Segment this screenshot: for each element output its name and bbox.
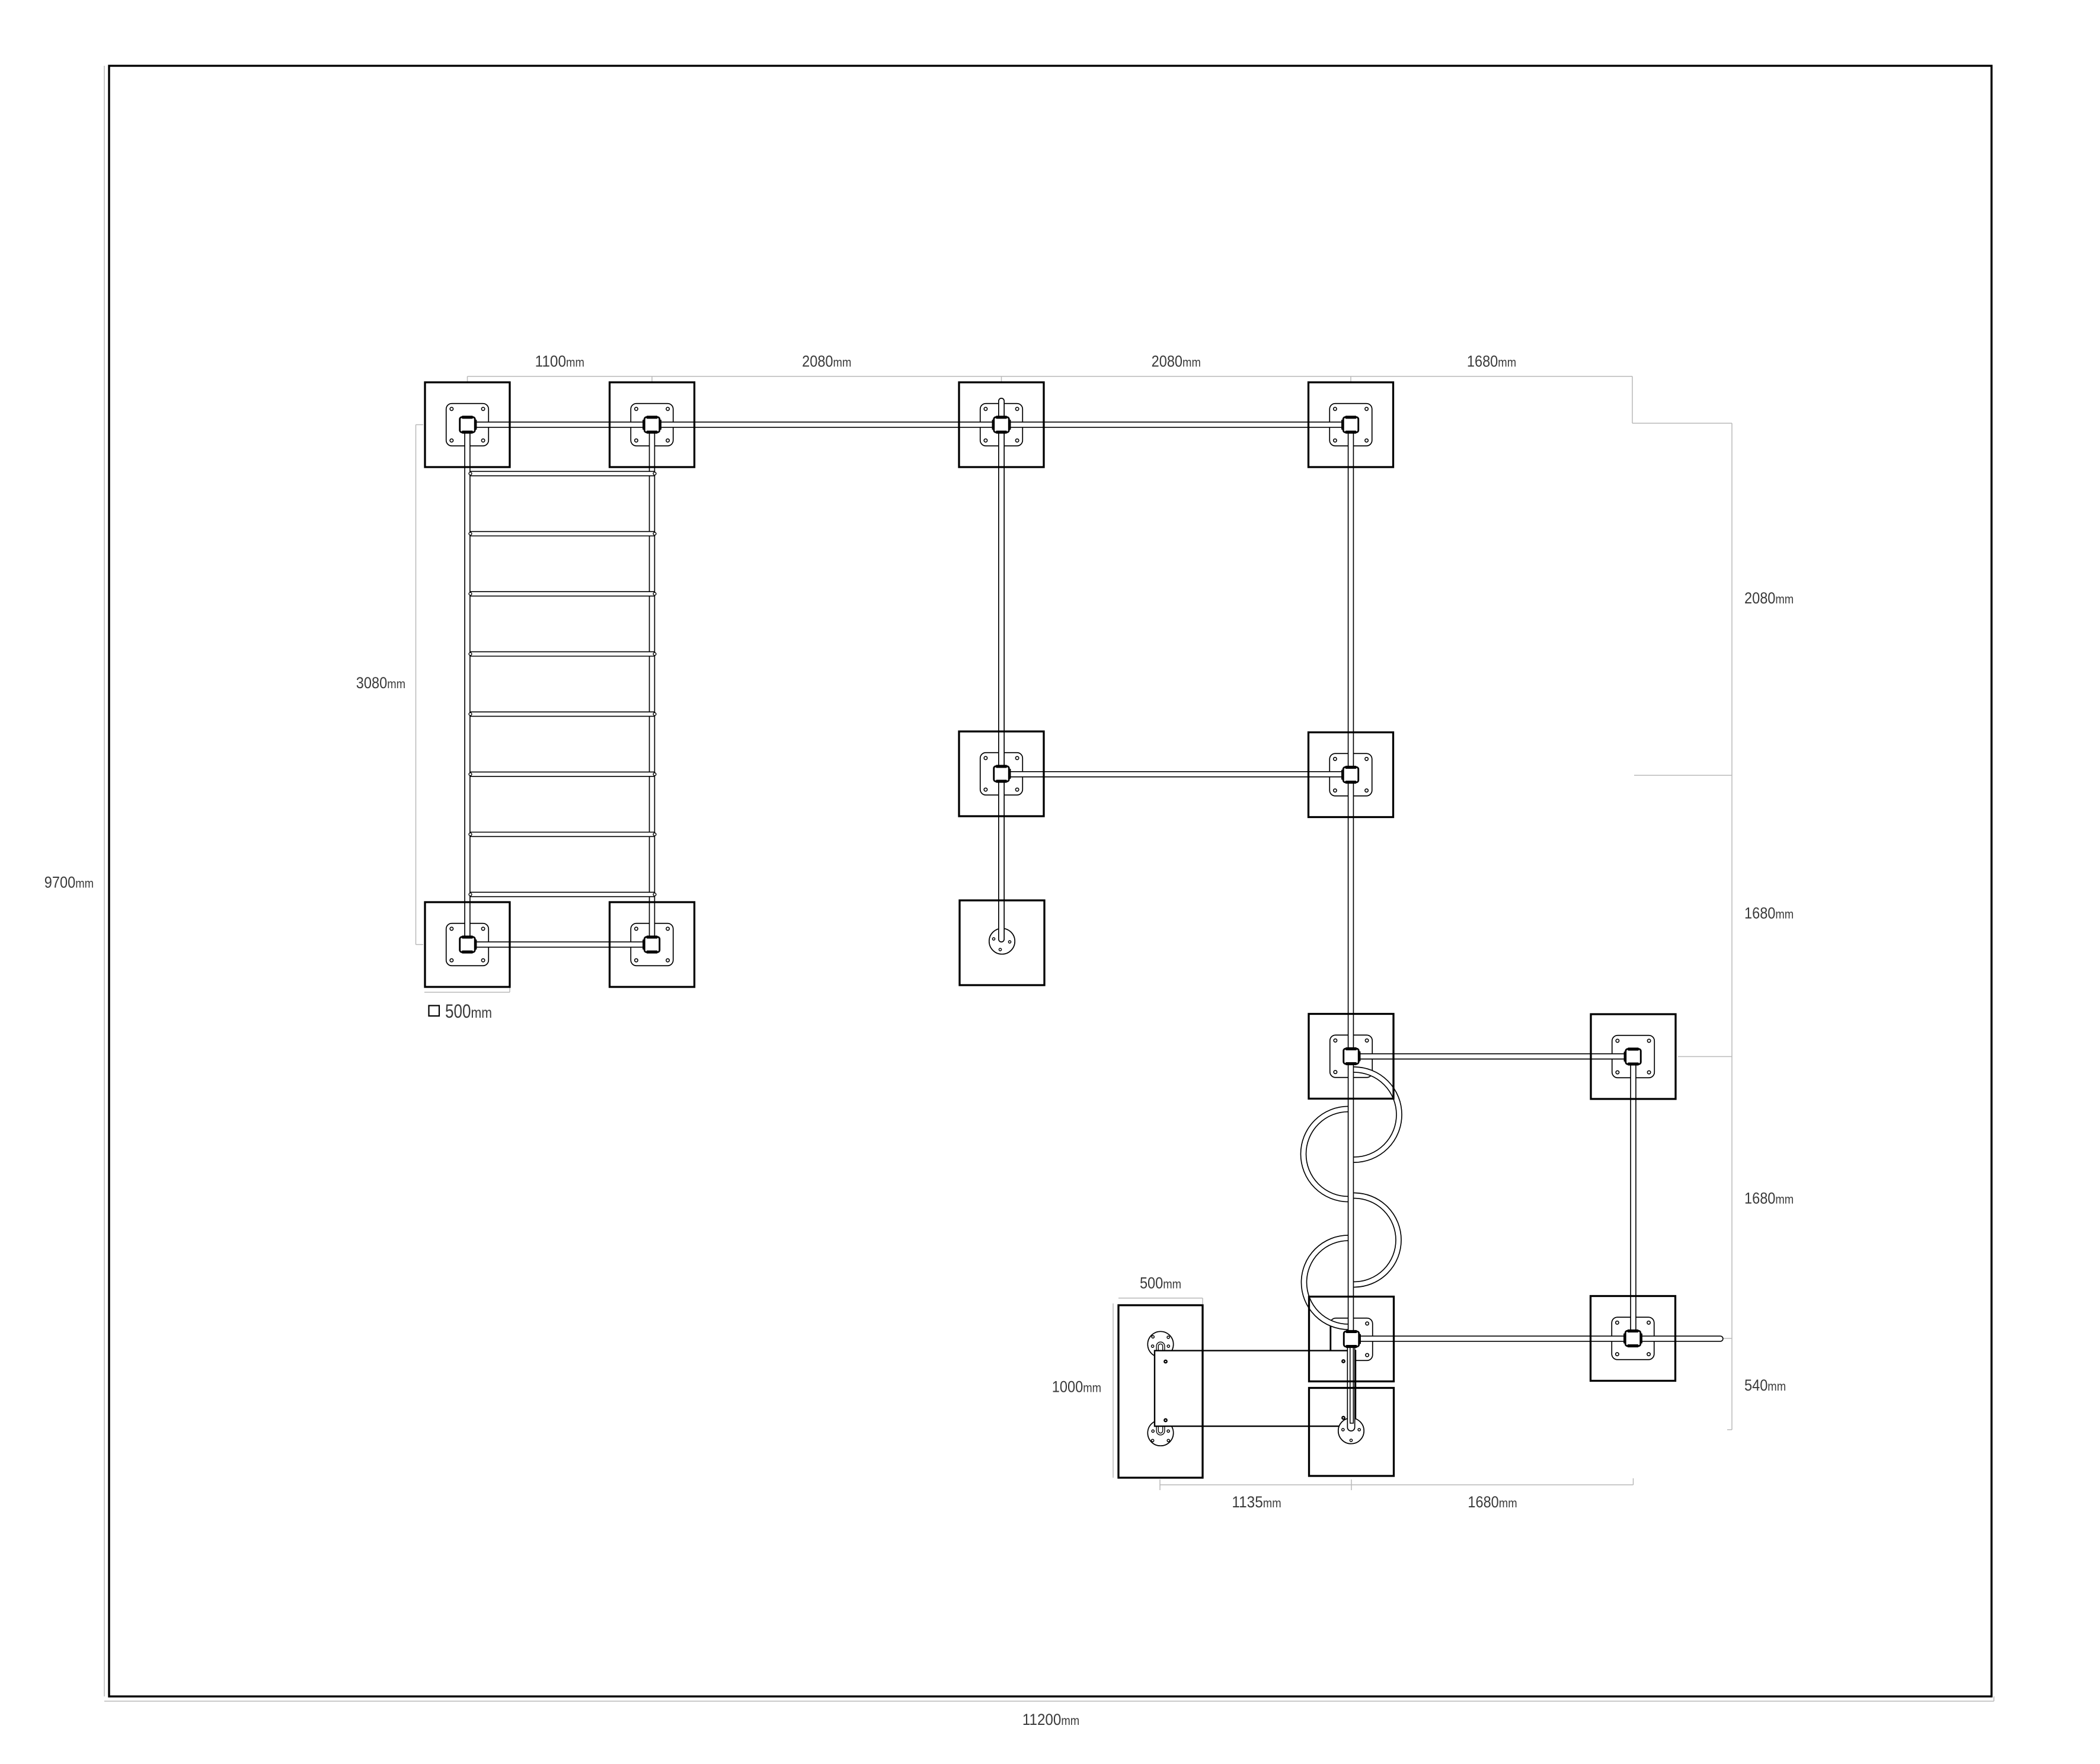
pad P5 fill xyxy=(425,902,510,987)
label 9700mm left xyxy=(44,874,94,891)
pad P6 border xyxy=(610,902,695,987)
base plate P2 xyxy=(631,404,673,446)
svg-text:1680mm: 1680mm xyxy=(1468,1493,1517,1511)
bar E R3-E1 xyxy=(1351,1053,1634,1060)
pad R5 fill xyxy=(1309,1388,1394,1477)
pad P1 border xyxy=(425,382,510,467)
label 1000mm tall-pad xyxy=(1052,1378,1101,1396)
flange R5 pole base xyxy=(1338,1418,1364,1443)
pad R2 fill xyxy=(1309,733,1393,817)
label 3080mm ladder xyxy=(356,674,405,692)
label 1680mm right-side-1 xyxy=(1744,905,1794,922)
pad R4 fill xyxy=(1309,1297,1394,1382)
pad tall fill xyxy=(1118,1305,1203,1478)
ladder rung 3 xyxy=(469,592,656,595)
label 2080mm top-left xyxy=(802,353,851,370)
bench bolt 4 xyxy=(1341,1416,1345,1420)
snake arc 1 right xyxy=(1354,1070,1399,1160)
post anchor box R3 xyxy=(1344,1047,1361,1065)
base plate P6 xyxy=(631,923,673,966)
pad E2 fill xyxy=(1591,1296,1676,1381)
pipe elbow tall-pad bottom xyxy=(1158,1426,1164,1434)
post stub above P3 xyxy=(998,401,1005,425)
pad R2 border xyxy=(1309,733,1393,817)
label 1680mm bottom xyxy=(1468,1493,1517,1511)
pad P6 fill xyxy=(610,902,695,987)
post P3-M2-M3 middle column xyxy=(998,425,1005,939)
svg-text:1680mm: 1680mm xyxy=(1744,1190,1794,1207)
bar G P5-P6 xyxy=(468,941,653,948)
pad E2 border xyxy=(1591,1296,1676,1381)
cover plate over R4 xyxy=(1331,1321,1353,1351)
label 2080mm top-right xyxy=(1152,353,1201,370)
post anchor box P6 xyxy=(643,935,660,953)
svg-text:1135mm: 1135mm xyxy=(1232,1493,1281,1511)
base plate P4 xyxy=(1329,404,1372,446)
post anchor box P5 xyxy=(460,935,477,953)
pad P2 fill xyxy=(610,382,695,467)
base plate R2 xyxy=(1329,753,1372,796)
pad M2 fill xyxy=(959,731,1044,816)
base plate P5 xyxy=(446,923,489,966)
svg-text:1680mm: 1680mm xyxy=(1467,353,1516,370)
pipe elbow tall-pad top xyxy=(1158,1343,1164,1351)
post anchor box R2 xyxy=(1341,766,1359,784)
pad P4 fill xyxy=(1309,382,1393,467)
pad P4 border xyxy=(1309,382,1393,467)
bar B P2-P3 xyxy=(652,421,1002,428)
label 1680mm top-far-right xyxy=(1467,353,1516,370)
svg-text:500mm: 500mm xyxy=(1140,1274,1181,1292)
svg-text:1100mm: 1100mm xyxy=(535,353,584,370)
pad R5 border xyxy=(1309,1388,1394,1477)
pad R4 border xyxy=(1309,1297,1394,1382)
flange tall-pad bottom xyxy=(1148,1420,1173,1446)
pad P1 fill xyxy=(425,382,510,467)
pad P3 border xyxy=(959,382,1044,467)
post anchor box P3 xyxy=(992,416,1011,433)
label 2080mm right-side xyxy=(1744,589,1794,607)
bench bolt 3 xyxy=(1341,1359,1345,1363)
svg-text:2080mm: 2080mm xyxy=(1152,353,1201,370)
flange M3 pole base xyxy=(989,928,1015,954)
pad M3 border xyxy=(960,900,1044,985)
pad E1 border xyxy=(1591,1014,1676,1099)
ladder rung 4 xyxy=(469,653,656,656)
legend 500mm square xyxy=(429,1001,493,1022)
base plate R4 xyxy=(1330,1318,1373,1361)
base plate E1 xyxy=(1612,1036,1655,1078)
pad M3 fill xyxy=(960,900,1044,985)
bar F R4-E2 extended xyxy=(1351,1335,1721,1342)
svg-text:2080mm: 2080mm xyxy=(1744,589,1794,607)
pad P3 fill xyxy=(959,382,1044,467)
label 1135mm bottom xyxy=(1232,1493,1281,1511)
pad P2 border xyxy=(610,382,695,467)
ladder rung 5 xyxy=(469,712,656,715)
post E1-E2 xyxy=(1630,1057,1636,1339)
pad M2 border xyxy=(959,731,1044,816)
label 11200mm bottom xyxy=(1022,1711,1079,1728)
post anchor box R4 xyxy=(1344,1330,1361,1348)
pad P5 border xyxy=(425,902,510,987)
label 500mm tall-pad xyxy=(1140,1274,1181,1292)
ladder rung 2 xyxy=(469,532,656,535)
pad tall border xyxy=(1118,1305,1203,1478)
post anchor box P4 xyxy=(1341,416,1359,433)
svg-text:11200mm: 11200mm xyxy=(1022,1711,1079,1728)
bar A P1-P2 xyxy=(468,421,653,428)
ladder rung 7 xyxy=(469,833,656,836)
base plate M2 xyxy=(980,753,1023,795)
bench bolt 1 xyxy=(1164,1360,1168,1364)
bar C P3-P4 xyxy=(1002,421,1351,428)
post anchor box E1 xyxy=(1624,1047,1641,1065)
post anchor box E2 xyxy=(1623,1330,1642,1347)
pad E1 fill xyxy=(1591,1014,1676,1099)
svg-text:9700mm: 9700mm xyxy=(44,874,94,891)
post anchor box P1 xyxy=(460,416,477,433)
label 1100mm top xyxy=(535,353,584,370)
svg-text:2080mm: 2080mm xyxy=(802,353,851,370)
bench bolt 2 xyxy=(1164,1418,1168,1423)
bar D M2-R2 xyxy=(1002,771,1351,778)
snake arc 3 right xyxy=(1354,1196,1399,1284)
label 1680mm right-side-2 xyxy=(1744,1190,1794,1207)
post P2-P6 ladder rail right xyxy=(649,425,656,945)
snake arc 4 left xyxy=(1304,1238,1348,1327)
post anchor box P2 xyxy=(643,416,661,433)
base plate E2 xyxy=(1612,1317,1654,1360)
snake arc 2 left xyxy=(1303,1109,1348,1199)
flange tall-pad top xyxy=(1148,1331,1173,1357)
post R4-flange wide sleeve xyxy=(1350,1339,1354,1427)
base plate R3 xyxy=(1330,1035,1373,1078)
svg-text:3080mm: 3080mm xyxy=(356,674,405,692)
svg-text:1000mm: 1000mm xyxy=(1052,1378,1101,1396)
svg-text:1680mm: 1680mm xyxy=(1744,905,1794,922)
ladder rung 6 xyxy=(469,773,656,776)
post P1-P5 ladder rail left xyxy=(464,425,471,945)
post anchor box M2 xyxy=(994,765,1011,782)
ladder rung 1 xyxy=(469,472,656,475)
base plate P3 xyxy=(980,404,1023,446)
post P4-R2-R3-R4 right column xyxy=(1348,425,1354,1340)
pad R3 border xyxy=(1309,1014,1393,1099)
label 540mm right-side xyxy=(1744,1376,1786,1394)
bench board xyxy=(1155,1351,1356,1427)
svg-text:540mm: 540mm xyxy=(1744,1376,1786,1394)
base plate P1 xyxy=(446,404,489,446)
pad R3 fill xyxy=(1309,1014,1393,1099)
ladder rung 8 xyxy=(469,893,656,896)
